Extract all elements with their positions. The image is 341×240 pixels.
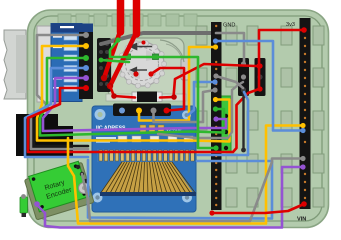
node red VIN bbox=[301, 201, 307, 207]
wire W-gray-c (GND to J6 top) bbox=[216, 33, 244, 62]
connector tab J1 (left edge) bbox=[4, 30, 26, 99]
header J3 (2x7 black, left of motor) bbox=[97, 38, 111, 92]
module U1 silk rows bbox=[53, 26, 77, 92]
header J7 (small right) bbox=[255, 58, 266, 96]
wire W-yellow-A (module to GND) bbox=[37, 46, 230, 142]
node purple encoder bbox=[34, 201, 40, 207]
connector J2 (black box below module) bbox=[16, 114, 73, 156]
motor M1 bracket bar bbox=[106, 94, 186, 101]
pad row top bbox=[58, 14, 197, 26]
wire W-red-VIN bbox=[212, 204, 304, 213]
OLED pin 4 bbox=[164, 108, 170, 114]
node purple VIN rail bbox=[300, 164, 305, 169]
wire W-red thick supply B bbox=[133, 0, 141, 34]
node yellow GND low bbox=[213, 97, 218, 102]
wire W-blue-B (J6 to under OLED) bbox=[198, 92, 248, 155]
motor red terminal dots bbox=[133, 41, 153, 77]
wire W-purple-B (encoder to VIN rail) bbox=[36, 167, 303, 228]
node gray GND mid bbox=[213, 73, 218, 78]
header GND rail J4 bbox=[211, 22, 222, 210]
wire W-blue-D (3v3 rail to blue bus) bbox=[216, 41, 304, 131]
pad row bbox=[97, 149, 194, 162]
wire W-gray-f (encoder to VIN rail) bbox=[82, 159, 303, 222]
node yellow VIN rail bbox=[300, 123, 305, 128]
motor M1 rotor disc bbox=[118, 41, 167, 89]
motor M1 housing bbox=[103, 38, 189, 98]
node red J7 top bbox=[256, 63, 261, 68]
wire W-gray-d (GND to J6 bottom) bbox=[216, 76, 243, 88]
svg-text:VIN: VIN bbox=[297, 217, 306, 223]
motor arrow top bbox=[131, 44, 153, 50]
wire W-yellow-D (OLED pin2 to GND) bbox=[139, 47, 215, 121]
node blue GND bbox=[213, 38, 218, 43]
svg-text:3v3: 3v3 bbox=[286, 22, 295, 28]
node gray GND mid2 bbox=[212, 87, 217, 92]
wire W-blue-E (under display loop) bbox=[88, 160, 272, 219]
wire W-black-B (header J6 stub) bbox=[242, 92, 244, 150]
component D1 (black smd below motor) bbox=[132, 92, 162, 103]
OLED pin 3 bbox=[151, 108, 157, 114]
node green GND low bbox=[213, 106, 218, 111]
wire W-grayT thick (header J3 to GND rail) bbox=[101, 33, 216, 44]
wire W-green-A (module to GND) bbox=[40, 58, 224, 136]
rotary encoder U3 sub-board bbox=[24, 162, 94, 220]
pad grid right bbox=[196, 26, 324, 207]
wire W-gray-row bbox=[31, 116, 88, 149]
svg-text:GND: GND bbox=[223, 23, 235, 29]
node green J3 bbox=[99, 58, 104, 63]
motor arrow lower bbox=[131, 68, 147, 73]
wire W-red thick supply A bbox=[117, 0, 125, 32]
node gray VIN rail bbox=[300, 156, 305, 161]
node blue GND mid bbox=[212, 79, 217, 84]
node red B bbox=[107, 83, 113, 89]
OLED module U2 bbox=[92, 104, 196, 213]
wire W-gray-g (to header J6) bbox=[158, 82, 243, 138]
rotary encoder U3 bbox=[29, 161, 90, 212]
green rail board U5 (under GND header) bbox=[221, 96, 231, 152]
OLED pin 2 bbox=[136, 108, 142, 114]
encoder shaft bbox=[79, 183, 90, 194]
node red A bbox=[101, 75, 107, 81]
wire W-red-E (node B through D1 to J7) bbox=[110, 64, 260, 98]
node red end bbox=[209, 210, 214, 215]
node green GND bottom bbox=[213, 145, 218, 150]
OLED header block bbox=[113, 104, 171, 117]
module U1 pins bbox=[83, 32, 89, 91]
wire W-purple-A (module to GND) bbox=[43, 78, 226, 131]
wire W-red-D (motor to OLED pin4) bbox=[151, 68, 184, 111]
node purple GND bbox=[213, 116, 218, 121]
screw hole bottom-right bbox=[182, 193, 192, 203]
zebra fan bbox=[100, 162, 196, 196]
motor green pads bbox=[125, 54, 159, 60]
encoder pins bbox=[76, 165, 80, 169]
screw hole top-right bbox=[182, 111, 191, 120]
gray wire W-gray-b end dot bbox=[44, 106, 50, 112]
screw hole top-left bbox=[95, 109, 106, 120]
silk row resistors bbox=[118, 136, 193, 142]
node blue VIN rail bbox=[300, 128, 305, 133]
node yellow GND bbox=[213, 44, 218, 49]
jumper pads bbox=[140, 125, 164, 132]
module U1 (blue breakout, top-left) bbox=[37, 24, 93, 103]
OLED pin 1 bbox=[119, 108, 125, 114]
wire W-blue-C (GND to OLED screw area) bbox=[188, 82, 215, 115]
node red D1 right bbox=[171, 94, 177, 100]
wire W-green-B (motor pads to GND) bbox=[110, 40, 216, 148]
wire W-gray-e (OLED pin3 to GND) bbox=[154, 90, 216, 122]
wire W-green-C (header J3 to motor pad) bbox=[101, 60, 129, 62]
wire W-yellow-C (encoder to VIN rail) bbox=[68, 126, 303, 224]
screw hole bottom-left bbox=[93, 193, 103, 203]
wire W-red-C (module to header J7 and 3v3) bbox=[28, 30, 304, 152]
pin dot gray GND bbox=[213, 30, 219, 36]
wire W-blue-A (module to display left edge) bbox=[25, 68, 88, 157]
node green top bbox=[115, 37, 120, 42]
wire W-black (module area to encoder gap) bbox=[34, 116, 88, 146]
wire W-gray-b (module gray) bbox=[37, 35, 86, 107]
header 3v3/VIN rail J5 bbox=[300, 18, 311, 209]
node red 3v3 bbox=[301, 27, 307, 33]
node red D1 left bbox=[111, 93, 117, 99]
header J6 (small left) bbox=[238, 58, 249, 96]
transistor Q1 (small green part, left edge) bbox=[20, 194, 28, 217]
